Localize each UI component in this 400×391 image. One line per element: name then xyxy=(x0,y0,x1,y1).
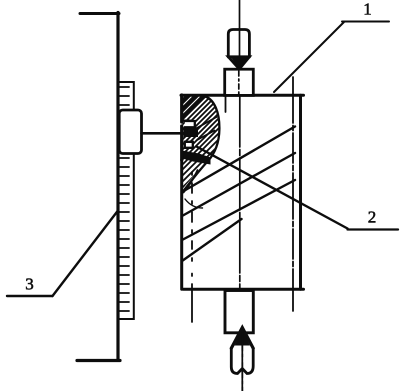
leader 1 diagonal xyxy=(274,22,344,92)
short vertical inside top xyxy=(225,96,227,112)
scale body (ruler) xyxy=(118,82,134,319)
helix line 3 xyxy=(182,180,295,240)
dark seat around ball xyxy=(184,127,199,137)
small lower curve xyxy=(184,170,198,193)
helix stub above ball xyxy=(196,117,217,129)
svg-text:1: 1 xyxy=(363,0,372,19)
bottom shank xyxy=(231,348,253,373)
cylinder bottom line xyxy=(183,288,304,291)
cylinder part 1: top line xyxy=(181,94,304,97)
indicator slider box xyxy=(119,110,141,154)
ruler ticks upper xyxy=(120,87,130,105)
leader 1 horizontal xyxy=(342,21,389,23)
label 3 leader diagonal xyxy=(53,211,119,297)
left dash-dot axis line xyxy=(191,172,193,322)
bottom centerline xyxy=(241,333,243,391)
thread form arc xyxy=(184,97,220,191)
top shank xyxy=(228,30,249,58)
probe arm xyxy=(142,132,191,135)
leader 2 horizontal xyxy=(348,228,399,230)
stand column xyxy=(116,13,119,361)
ruler ticks lower xyxy=(120,158,130,311)
svg-text:2: 2 xyxy=(368,208,377,227)
label 3 leader horizontal xyxy=(7,295,53,297)
thread profile hatched section xyxy=(174,36,238,202)
faint lower arc xyxy=(185,199,203,208)
profile left edge mid xyxy=(180,126,183,160)
top block centerline dots xyxy=(238,71,240,94)
top cone arrow xyxy=(228,57,249,69)
right dash-dot axis line xyxy=(292,77,294,311)
helix stub below ball xyxy=(197,131,215,141)
profile left edge upper xyxy=(180,95,183,122)
groove notch below ball xyxy=(185,142,193,148)
stand foot xyxy=(77,359,120,362)
profile notch step xyxy=(182,119,190,121)
bottom block xyxy=(225,291,253,333)
top block xyxy=(225,69,254,95)
helix line 1 xyxy=(182,127,295,193)
bottom cone arrow xyxy=(231,328,253,349)
cylinder right edge xyxy=(299,95,302,289)
measuring ball 2 xyxy=(187,127,197,137)
cylinder left edge lower xyxy=(180,160,183,289)
centerline lower xyxy=(241,290,243,391)
helix line 4 xyxy=(182,219,242,261)
stand top bracket xyxy=(80,12,119,15)
helix line 2 xyxy=(182,153,295,216)
centerline middle xyxy=(239,95,241,290)
svg-text:3: 3 xyxy=(25,275,34,294)
centerline upper xyxy=(239,0,241,95)
leader 2 diagonal from ball xyxy=(197,147,348,229)
groove notch above ball xyxy=(185,121,195,127)
lower tooth dark band xyxy=(182,151,211,165)
